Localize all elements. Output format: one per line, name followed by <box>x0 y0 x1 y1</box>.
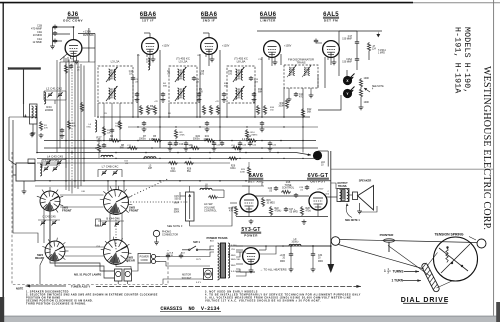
coupling 6AV6 to 6V6 <box>255 195 309 197</box>
small caps row y95 <box>135 92 139 97</box>
tuner assembly dashed outline <box>12 152 168 285</box>
wire bus AVC <box>37 152 296 154</box>
svg-text:10K: 10K <box>107 132 111 134</box>
trimmers C41 C42 cluster <box>47 92 52 97</box>
osc section density <box>103 103 105 141</box>
wire disc box drops <box>283 88 285 117</box>
svg-text:L4 C43 C45: L4 C43 C45 <box>47 155 63 159</box>
wire 6V6 plate to output trans <box>326 196 337 198</box>
junction dots y127 <box>137 126 138 127</box>
wire rectifier output choke <box>259 251 285 253</box>
tube V4 6AU6 envelope <box>264 41 281 58</box>
pot R20 100K <box>359 78 362 88</box>
wire to X Y jacks <box>346 70 348 76</box>
svg-text:.05: .05 <box>255 82 259 84</box>
wire bus mid 1 <box>44 140 316 142</box>
wire 6AV6 grid from volume control <box>190 207 237 226</box>
trimmer C4C <box>112 170 117 175</box>
svg-text:BLK: BLK <box>181 253 186 255</box>
svg-text:6.3 V: 6.3 V <box>196 282 202 284</box>
switch SW3 rear wafer <box>45 241 65 261</box>
svg-text:10: 10 <box>321 165 324 167</box>
svg-text:4700Ω: 4700Ω <box>275 210 282 213</box>
left riser wires tuner <box>56 60 58 153</box>
bottom left wire drops <box>13 175 38 243</box>
wire IF box drop 1 <box>97 103 99 117</box>
svg-text:C24: C24 <box>252 144 257 146</box>
extra verticals top left <box>63 56 65 62</box>
svg-text:22K: 22K <box>72 126 76 128</box>
wire 5Y3 plates <box>236 249 243 251</box>
AM detector section box <box>318 95 341 110</box>
trimmer C4B <box>101 170 106 175</box>
idler pulley top right <box>477 239 486 248</box>
svg-text:.05: .05 <box>269 191 273 193</box>
wire bus B+ upper <box>100 116 310 118</box>
svg-text:10: 10 <box>146 62 149 64</box>
dial drum circle <box>434 237 478 281</box>
svg-text:POWER TRANS: POWER TRANS <box>207 236 228 240</box>
wafer interconnect wires <box>60 194 104 196</box>
resistors hanging y127 <box>174 129 177 139</box>
title WESTINGHOUSE ELECTRIC CORP. <box>481 66 492 230</box>
wire 6AU6 drops <box>261 57 263 117</box>
output trans can <box>337 189 349 202</box>
wire top bus limiter/det <box>257 30 382 32</box>
svg-text:470Ω: 470Ω <box>306 210 312 213</box>
svg-text:R3: R3 <box>104 113 108 115</box>
junction wires antenna cluster <box>44 99 66 101</box>
svg-text:68Ω: 68Ω <box>224 85 228 88</box>
svg-text:220K: 220K <box>240 172 246 174</box>
svg-text:+250V: +250V <box>317 189 324 191</box>
svg-text:H-191, H-191A: H-191, H-191A <box>453 27 462 93</box>
wire left risers to tuner <box>36 117 38 153</box>
svg-text:150: 150 <box>270 110 274 112</box>
resistor R29 on bus <box>228 157 238 160</box>
wires wafer SW2F stubs <box>100 198 104 201</box>
svg-text:C25: C25 <box>272 144 277 146</box>
ground mid rail 2 <box>302 220 307 225</box>
svg-text:2.2 MEG: 2.2 MEG <box>242 139 251 141</box>
capacitor C13A <box>166 254 170 259</box>
ground lower left <box>22 189 27 194</box>
svg-text:CONTROL: CONTROL <box>282 187 295 190</box>
svg-text:POWER: POWER <box>244 234 258 238</box>
6AV6 plate resistor <box>247 166 250 176</box>
svg-text:YEL: YEL <box>231 249 236 251</box>
svg-text:2200Ω: 2200Ω <box>45 108 53 112</box>
tube V1 6J6 envelope <box>65 40 82 57</box>
svg-text:22K: 22K <box>199 92 204 94</box>
tube V2 6BA6 envelope <box>142 38 159 55</box>
svg-text:L3 L3A: L3 L3A <box>111 60 120 64</box>
capacitor C1B <box>53 25 57 30</box>
svg-text:SEE NOTE: SEE NOTE <box>372 86 384 88</box>
svg-text:33K: 33K <box>149 108 154 111</box>
dial cord bar to drum upper <box>427 253 438 267</box>
antenna mast <box>8 67 40 69</box>
horizontal resistors on buses <box>110 139 120 142</box>
wire transformer primary <box>206 246 214 250</box>
svg-text:C22: C22 <box>216 144 221 146</box>
svg-text:25: 25 <box>77 70 80 72</box>
svg-text:CONNECTOR: CONNECTOR <box>162 234 178 237</box>
svg-text:C23: C23 <box>242 144 247 146</box>
vertical wire wafer1 to wafer3 <box>49 211 51 241</box>
svg-text:56Ω: 56Ω <box>187 170 192 173</box>
wire bus risers to tuner <box>65 58 67 181</box>
svg-text:REAR: REAR <box>127 259 135 263</box>
wires wafer SW3R stubs <box>42 246 45 247</box>
svg-text:.05: .05 <box>196 82 200 84</box>
spring zigzag inside drum <box>446 248 448 262</box>
svg-text:CONTROL: CONTROL <box>204 209 217 213</box>
svg-text:1 TURN: 1 TURN <box>392 279 404 283</box>
resistor R23 on riser <box>80 102 83 112</box>
osc cluster cap <box>60 128 64 133</box>
svg-text:RED: RED <box>231 265 236 267</box>
resistor R15 10MEG <box>261 197 264 207</box>
right edge scan bar <box>496 302 500 322</box>
pilot lamp 2 <box>124 269 132 281</box>
wire L8 to AV6 <box>212 189 224 191</box>
capacitor C13B <box>179 254 183 259</box>
svg-text:C10: C10 <box>179 144 184 146</box>
grounds under discriminator <box>287 97 292 102</box>
6J6 cathode parts <box>64 64 67 74</box>
svg-text:NOTE: NOTE <box>16 286 23 290</box>
wire 6J6 input left rail <box>52 27 54 43</box>
svg-text:C C43 C45: C C43 C45 <box>42 215 56 219</box>
tube V8 5Y3-GT envelope <box>243 248 260 265</box>
svg-text:B C44 C46: B C44 C46 <box>106 217 120 221</box>
wires wafers to pilot lamps <box>50 211 115 271</box>
wires transformer to rectifier <box>236 245 243 247</box>
svg-text:10 MEG: 10 MEG <box>267 203 276 205</box>
svg-text:1 MFD: 1 MFD <box>378 53 385 55</box>
svg-text:OSC CONV: OSC CONV <box>63 19 83 23</box>
svg-text:TRANS.: TRANS. <box>338 185 348 188</box>
wire tone control run <box>261 181 263 186</box>
svg-text:124: 124 <box>372 49 377 51</box>
svg-text:TUNER ASSʼY: TUNER ASSʼY <box>71 284 90 288</box>
wire bus tuner top <box>35 180 331 182</box>
svg-text:4: 4 <box>372 89 374 91</box>
svg-text:20: 20 <box>318 258 321 260</box>
svg-text:DIAL DRIVE: DIAL DRIVE <box>401 297 450 304</box>
junction dots bus rows <box>97 116 99 118</box>
tube V6 6AV6 envelope <box>240 194 258 212</box>
resistor R30 on bus <box>168 161 178 164</box>
wire x99 stub <box>98 138 100 143</box>
svg-text:100: 100 <box>228 74 233 76</box>
svg-text:MODELS H-190,: MODELS H-190, <box>462 27 471 93</box>
power cord plug <box>151 254 155 258</box>
resistor R28 <box>300 206 303 216</box>
svg-text:100: 100 <box>200 74 205 76</box>
svg-text:2: 2 <box>388 272 390 275</box>
electrolytic C34 <box>311 252 315 257</box>
transformer T4 FM discriminator dashed box <box>284 65 318 88</box>
svg-text:+2V: +2V <box>215 101 219 103</box>
svg-text:470: 470 <box>229 210 234 213</box>
junction dots osc section <box>103 140 105 142</box>
choke L5 on bus <box>144 157 156 159</box>
SW1 to transformer wire <box>206 249 214 251</box>
capacitor C1A <box>53 39 57 44</box>
svg-text:L8 L8A: L8 L8A <box>237 60 246 64</box>
svg-text:CHASSIS NO V-2134: CHASSIS NO V-2134 <box>160 306 219 312</box>
svg-text:TENSION SPRING: TENSION SPRING <box>434 233 463 237</box>
switch SW2 rear wafer <box>104 240 129 265</box>
svg-text:+105V: +105V <box>284 45 292 48</box>
dial cord pulley left <box>331 237 340 246</box>
svg-text:REAR: REAR <box>35 256 43 260</box>
wire speaker vc return <box>360 206 377 212</box>
svg-text:WESTINGHOUSE ELECTRIC CORP.: WESTINGHOUSE ELECTRIC CORP. <box>481 66 492 230</box>
capacitor C26 <box>274 186 278 191</box>
svg-text:OUTPUT: OUTPUT <box>310 180 325 184</box>
tube V7 6V6-GT envelope <box>309 192 327 210</box>
drum hub dots <box>446 246 448 248</box>
resistor R12 56K <box>301 108 304 118</box>
divider line right of schematic <box>331 168 494 170</box>
tube V3 6BA6 envelope <box>201 38 218 55</box>
svg-text:1ST IF: 1ST IF <box>142 19 154 23</box>
switch SW3 front wafer <box>40 191 60 211</box>
svg-text:LIMITER: LIMITER <box>260 19 276 23</box>
extra caps under tubes <box>131 76 135 81</box>
left edge loop wires <box>9 117 16 165</box>
drum spokes <box>441 244 470 273</box>
svg-text:RED-YEL: RED-YEL <box>231 259 241 261</box>
svg-text:68K: 68K <box>258 92 263 94</box>
coil L7 osc <box>101 155 113 157</box>
ground C12 <box>260 127 265 132</box>
svg-text:T-156 A: T-156 A <box>378 49 386 52</box>
svg-text:.05: .05 <box>167 74 171 76</box>
svg-text:+120V: +120V <box>222 45 230 48</box>
wire plate supply 6J6 <box>73 27 75 40</box>
wire disc out <box>302 88 304 153</box>
extra power wiring <box>236 252 240 257</box>
svg-text:MFD: MFD <box>280 261 285 263</box>
extra junction dots tuner top <box>49 180 51 182</box>
wire rect filament to choke <box>259 246 283 254</box>
wire IF box drop 2 <box>168 103 170 117</box>
svg-text:1000Ω: 1000Ω <box>291 241 298 244</box>
speaker return wire and ground <box>359 203 361 209</box>
ground pot <box>360 98 362 105</box>
heater continuation from trans <box>236 272 246 276</box>
svg-text:3300Ω: 3300Ω <box>193 138 200 141</box>
arrow pot wiper <box>364 88 370 92</box>
svg-text:500: 500 <box>175 198 180 201</box>
wire bus tuner second <box>35 185 250 187</box>
capacitor C12 <box>260 121 264 126</box>
svg-text:56K: 56K <box>307 111 312 114</box>
capacitor C27 <box>284 207 288 212</box>
pilot lamp 1 <box>115 269 123 281</box>
extra caps mid band <box>168 141 172 146</box>
dotted mechanical link wafers <box>127 201 128 202</box>
capacitor C14 <box>294 92 298 97</box>
dial cord diagonal to tensioner <box>339 245 425 270</box>
wire bus y127 <box>128 126 318 128</box>
wire 6J6 plate to T1 <box>82 47 95 49</box>
cathode coil tube2 <box>148 58 150 70</box>
shielded riser dashed <box>71 58 73 181</box>
svg-text:C5: C5 <box>137 55 141 57</box>
svg-text:VOLTAGE 117 V.A.C. VOLTAGES SH: VOLTAGE 117 V.A.C. VOLTAGES SHOULD BE AS… <box>205 299 321 302</box>
wire 6AL5 left cap <box>316 42 322 44</box>
dial cord span arrow left <box>26 285 67 287</box>
resistors under limiter <box>256 105 259 115</box>
svg-text:56K: 56K <box>120 147 125 150</box>
osc coil cluster <box>95 120 97 132</box>
svg-text:DET FM: DET FM <box>324 19 338 23</box>
svg-text:20: 20 <box>282 258 285 260</box>
wire 6BA6-2 drops <box>199 54 201 117</box>
coil L8 <box>200 188 212 190</box>
trimmers under SW3 <box>40 220 45 225</box>
svg-text:SW 1: SW 1 <box>193 240 200 244</box>
svg-text:+2V: +2V <box>154 101 158 103</box>
svg-text:SEE NOTE 3: SEE NOTE 3 <box>167 224 183 228</box>
trimmer cluster lower left <box>43 166 48 171</box>
connector phono input dot <box>313 151 322 160</box>
ground tuner left <box>30 132 35 137</box>
trimmer C45 <box>56 160 61 165</box>
ground 6J6 input <box>52 43 54 44</box>
svg-text:C40: C40 <box>81 191 86 193</box>
left mid resistor R1 <box>39 121 42 131</box>
switch SW2 front wafer <box>104 190 129 215</box>
trimmer C44 <box>101 221 106 226</box>
connector Y <box>343 89 352 98</box>
wire bus lower mid 1 <box>37 157 318 159</box>
transformer T3 3rd IF dashed box <box>227 66 255 103</box>
title MODELS H-190, H-191, H-191A <box>462 27 471 93</box>
ground C9 <box>205 127 210 132</box>
phono connector circle <box>153 230 159 236</box>
capacitor C16A <box>355 57 359 62</box>
wire grid caps <box>149 33 151 38</box>
schematic right edge vertical wire <box>330 151 332 264</box>
svg-text:RED: RED <box>231 255 236 257</box>
wire bus heaters <box>230 245 331 247</box>
border frame top <box>0 2 413 4</box>
wire risers into wafers <box>65 181 67 190</box>
svg-text:CORD: CORD <box>141 259 148 262</box>
svg-text:TRANS: TRANS <box>296 60 305 64</box>
resistors under 1st IF <box>139 105 142 115</box>
svg-text:R8: R8 <box>168 113 172 115</box>
svg-text:LΔ GRN-GRN: LΔ GRN-GRN <box>43 159 59 163</box>
svg-text:1000Ω: 1000Ω <box>139 138 146 141</box>
left edge scan bar <box>0 297 4 322</box>
svg-text:C16A: C16A <box>346 58 352 61</box>
bottom rail under 6AV6 <box>236 216 266 218</box>
wire volume control top <box>189 186 191 192</box>
svg-text:FRONT: FRONT <box>129 209 139 213</box>
junction dots heater bus <box>290 245 292 247</box>
grid return 6AV6 <box>230 202 237 204</box>
wire 6BA6-1 drops <box>137 54 139 117</box>
svg-text:470 MMF: 470 MMF <box>31 26 42 30</box>
capacitor C9 <box>205 121 209 126</box>
wire bottom rail mid <box>266 216 328 218</box>
svg-text:160Ω: 160Ω <box>170 170 176 173</box>
svg-text:SOCKET: SOCKET <box>182 277 192 280</box>
wire bus mid 2 <box>44 147 318 149</box>
wire 6J6 grid drop <box>73 57 75 63</box>
svg-text:NO. 51 PILOT LAMPS: NO. 51 PILOT LAMPS <box>74 272 102 276</box>
connector X <box>343 76 352 85</box>
osc cluster resistor <box>67 120 70 130</box>
svg-text:12 MMF: 12 MMF <box>32 40 42 44</box>
antenna coil L1 box <box>30 104 38 124</box>
resistor R22 4700 <box>269 206 272 216</box>
label POWER CORD box <box>138 254 151 264</box>
svg-text:2ND IF: 2ND IF <box>203 19 216 23</box>
wire IF box drop 3 <box>226 103 228 117</box>
svg-text:TURNS: TURNS <box>393 270 404 274</box>
svg-text:160Ω: 160Ω <box>230 167 236 170</box>
ground below antenna coil <box>32 124 34 131</box>
wire bus lower mid 2 <box>37 162 230 164</box>
svg-text:100K: 100K <box>278 105 284 108</box>
tension shaft striped bar <box>421 262 440 292</box>
svg-text:BLK: BLK <box>210 241 215 243</box>
transformer T2 2nd IF dashed box <box>169 66 197 103</box>
output trans top wires <box>331 183 336 189</box>
svg-text:+120V: +120V <box>162 45 170 48</box>
wires wafer SW2R stubs <box>101 248 104 251</box>
border frame right <box>493 0 495 316</box>
svg-text:L5 L5A: L5 L5A <box>179 60 188 64</box>
wire risers to wafers 2 <box>68 181 70 191</box>
volume control R16 box <box>186 192 195 221</box>
capacitor C7 <box>142 121 146 126</box>
svg-text:.01: .01 <box>300 190 304 192</box>
transformer T1 1st IF dashed box <box>98 66 133 103</box>
big ground arrow bus end <box>330 246 332 264</box>
wire 6AL5 drops <box>324 57 326 88</box>
resistor R28b on bus <box>184 161 194 164</box>
arrow into phono dot <box>296 153 311 156</box>
svg-text:500K: 500K <box>174 211 180 214</box>
ground C7 <box>142 127 147 132</box>
dial cord span line right <box>96 285 356 287</box>
motor socket <box>204 269 213 280</box>
svg-text:SEE NOTE 1: SEE NOTE 1 <box>345 219 360 222</box>
small box B <box>96 219 101 226</box>
vertical wire wafer2 to wafer4 <box>109 214 111 242</box>
svg-text:→ TO ALL HEATERS: → TO ALL HEATERS <box>260 268 287 272</box>
phono jack box <box>327 151 329 167</box>
ground mid rail 1 <box>249 219 254 224</box>
power area extra wires <box>132 263 139 271</box>
extra junction dots bottom bus <box>65 158 66 159</box>
resistors under 2nd IF <box>202 105 205 115</box>
choke L9 <box>289 244 301 246</box>
6J6 B plus run <box>60 61 95 63</box>
border frame left <box>2 2 4 316</box>
svg-text:100K: 100K <box>364 101 370 104</box>
svg-text:100K: 100K <box>364 77 370 80</box>
